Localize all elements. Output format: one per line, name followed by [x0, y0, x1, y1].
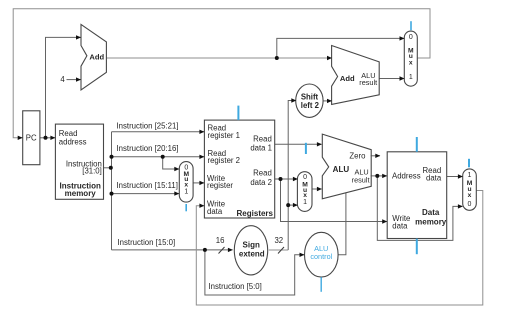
wire Instruction 15:11 to RegDst mux input 1 [112, 193, 179, 195]
arrowhead into PC [18, 136, 23, 140]
svg-text:1: 1 [409, 74, 413, 81]
svg-text:result: result [352, 176, 370, 185]
wire Read data 2 to ALUSrc mux input 0 [275, 178, 298, 180]
wire instruction memory output to bus [104, 167, 112, 169]
registers box [204, 120, 274, 218]
wire Instruction 20:16 branch to RegDst mux input 0 [163, 157, 179, 169]
wire ALU control output to ALU bottom [338, 193, 346, 255]
svg-text:0: 0 [303, 174, 307, 181]
junction dot read data 2 branch [279, 177, 283, 181]
svg-text:32: 32 [274, 236, 283, 245]
arrowhead into data memory write data [382, 219, 387, 223]
control stub PCSrc above top mux [410, 21, 412, 30]
ALU control ellipse [305, 232, 339, 277]
wire shift left 2 output to branch adder [323, 100, 332, 102]
arrowhead into Registers Write data [199, 204, 204, 208]
wire PC+4 branch up to top mux input 0 [277, 38, 404, 58]
svg-text:extend: extend [239, 250, 265, 259]
svg-text:Add: Add [89, 53, 104, 62]
mux ALUSrc [297, 172, 312, 212]
arrowhead PC+4 into branch adder [327, 56, 332, 60]
arrowhead into ALUSrc mux 1 [293, 203, 298, 207]
svg-text:Instruction [15:11]: Instruction [15:11] [117, 181, 178, 190]
instruction memory box [55, 124, 103, 199]
ALU main [322, 134, 371, 199]
svg-text:1: 1 [468, 172, 472, 179]
svg-text:control: control [310, 252, 332, 261]
svg-text:1: 1 [303, 199, 307, 206]
arrowhead into top mux 1 [400, 76, 405, 80]
wire PC output riser to Add [46, 37, 81, 137]
arrowhead into RegDst mux 0 [174, 167, 179, 171]
svg-text:4: 4 [60, 75, 65, 84]
wire Instruction 5:0 to ALU control [205, 250, 304, 295]
arrowhead into Read register 2 [199, 155, 204, 159]
wire data memory Read data to MemtoReg mux input 1 [447, 176, 463, 178]
junction dot PC output [44, 136, 48, 140]
wire Instruction 25:21 to Read register 1 [112, 131, 205, 133]
control stub RegWrite above registers [237, 106, 239, 121]
svg-text:data: data [392, 222, 408, 231]
junction dot bus 20:16 [110, 155, 114, 159]
wire ALU result to data memory Address [371, 175, 387, 177]
svg-text:x: x [468, 192, 472, 199]
svg-text:register 2: register 2 [208, 156, 241, 165]
junction dot PC+4 branch [275, 56, 279, 60]
wire ALUSrc mux output to ALU [312, 188, 322, 190]
svg-text:Read: Read [253, 134, 272, 143]
svg-text:data 2: data 2 [250, 178, 272, 187]
PC register box [23, 111, 40, 165]
wire sign extend riser to shift left 2 [288, 101, 296, 251]
mux MemtoReg [463, 169, 477, 210]
junction dot instruction output [109, 166, 113, 170]
junction dot 20:16 branch [161, 155, 165, 159]
wire PC feedback loop from top mux to PC input [13, 9, 430, 138]
arrowhead into sign extend [228, 248, 233, 252]
wire Read data 2 branch to data memory Write data [281, 179, 387, 222]
data memory box [387, 152, 447, 239]
svg-text:data: data [207, 207, 223, 216]
arrowhead into ALU bottom input [317, 187, 322, 191]
svg-text:memory: memory [65, 189, 97, 198]
slash 16-bit width mark [219, 247, 225, 254]
wire 4 to Add [67, 79, 81, 81]
mux PCSrc top [404, 31, 417, 86]
arrowhead zero output [375, 154, 380, 158]
svg-text:Add: Add [340, 74, 355, 83]
control stub MemRead below data memory [416, 239, 418, 255]
wire Zero output [371, 155, 380, 157]
mux RegDst [179, 162, 193, 203]
arrowhead into MemtoReg mux 0 [458, 204, 463, 208]
svg-text:x: x [409, 60, 413, 67]
arrowhead into shift left 2 [291, 98, 296, 102]
wire instruction bus vertical [111, 132, 113, 250]
wire Instruction 15:0 to sign extend [112, 249, 233, 251]
junction dot bus 15:11 [110, 192, 114, 196]
arrowhead into data memory address [382, 174, 387, 178]
svg-text:0: 0 [468, 201, 472, 208]
adder Add branch target [332, 46, 380, 105]
svg-text:Zero: Zero [349, 152, 366, 161]
arrowhead into RegDst mux 1 [174, 191, 179, 195]
svg-text:1: 1 [184, 188, 188, 195]
control stub RegDst below mux [185, 204, 187, 211]
wire sign extend output 32 [269, 249, 288, 251]
arrowhead into ALU top input [317, 142, 322, 146]
junction dot sign extend branch [286, 203, 290, 207]
arrowhead shift left 2 into branch adder [327, 99, 332, 103]
wire RegDst mux output to Write register [193, 182, 204, 184]
svg-text:left 2: left 2 [301, 101, 320, 110]
svg-text:address: address [59, 138, 87, 147]
slash 32-bit width mark [278, 247, 284, 254]
junction dot ALU result branch [375, 174, 379, 178]
svg-text:register: register [207, 181, 233, 190]
control stub ALUOp below ALU control [320, 277, 322, 292]
svg-text:data: data [426, 174, 442, 183]
wire sign extend branch to ALUSrc mux input 1 [288, 204, 297, 206]
svg-text:PC: PC [26, 134, 37, 143]
svg-text:register 1: register 1 [208, 131, 241, 140]
svg-text:memory: memory [415, 217, 447, 226]
svg-text:Sign: Sign [243, 240, 260, 249]
control stub MemtoReg above mux [468, 159, 470, 168]
sign extend ellipse [234, 226, 267, 275]
control stub ALUSrc above mux [305, 143, 307, 154]
svg-text:0: 0 [409, 34, 413, 41]
shift left 2 ellipse [296, 84, 323, 117]
svg-text:ALU: ALU [333, 165, 350, 174]
arrowhead into Read register 1 [199, 130, 204, 134]
svg-text:Registers: Registers [237, 209, 274, 218]
svg-text:Read: Read [253, 169, 272, 178]
wire Read data 1 to ALU [275, 143, 322, 145]
control stub MemWrite above data memory [416, 137, 418, 152]
wire Add PC+4 output to branch adder [106, 57, 332, 59]
svg-text:Instruction [5:0]: Instruction [5:0] [209, 282, 262, 291]
wire Instruction 20:16 to Read register 2 [112, 156, 205, 158]
wire MemtoReg mux output return loop to Registers Write data [196, 191, 483, 306]
svg-text:Instruction [25:21]: Instruction [25:21] [117, 121, 179, 130]
arrowhead into MemtoReg mux 1 [458, 174, 463, 178]
junction dot instruction 15:0 branch [203, 248, 207, 252]
svg-text:Instruction [15:0]: Instruction [15:0] [118, 238, 176, 247]
wire PC output to instruction memory [40, 137, 55, 139]
arrowhead into ALUSrc mux 0 [293, 177, 298, 181]
wire ALU result loop to MemtoReg mux input 0 [377, 176, 462, 241]
svg-text:Address: Address [392, 171, 421, 180]
svg-text:[31:0]: [31:0] [82, 167, 102, 176]
svg-text:data 1: data 1 [250, 144, 272, 153]
wire branch adder output to top mux input 1 [379, 78, 404, 80]
svg-text:Instruction [20:16]: Instruction [20:16] [117, 144, 179, 153]
arrowhead into ALU control [300, 253, 305, 257]
arrowhead into Write register [199, 181, 204, 185]
arrowhead into top mux 0 [400, 36, 405, 40]
svg-text:16: 16 [216, 236, 225, 245]
arrowhead 4 into Add [76, 77, 81, 81]
svg-text:Data: Data [422, 208, 440, 217]
adder Add PC+4 [81, 24, 106, 90]
svg-text:result: result [359, 78, 377, 87]
arrowhead into Add top input [76, 35, 81, 39]
arrowhead into instruction memory read address [50, 136, 55, 140]
